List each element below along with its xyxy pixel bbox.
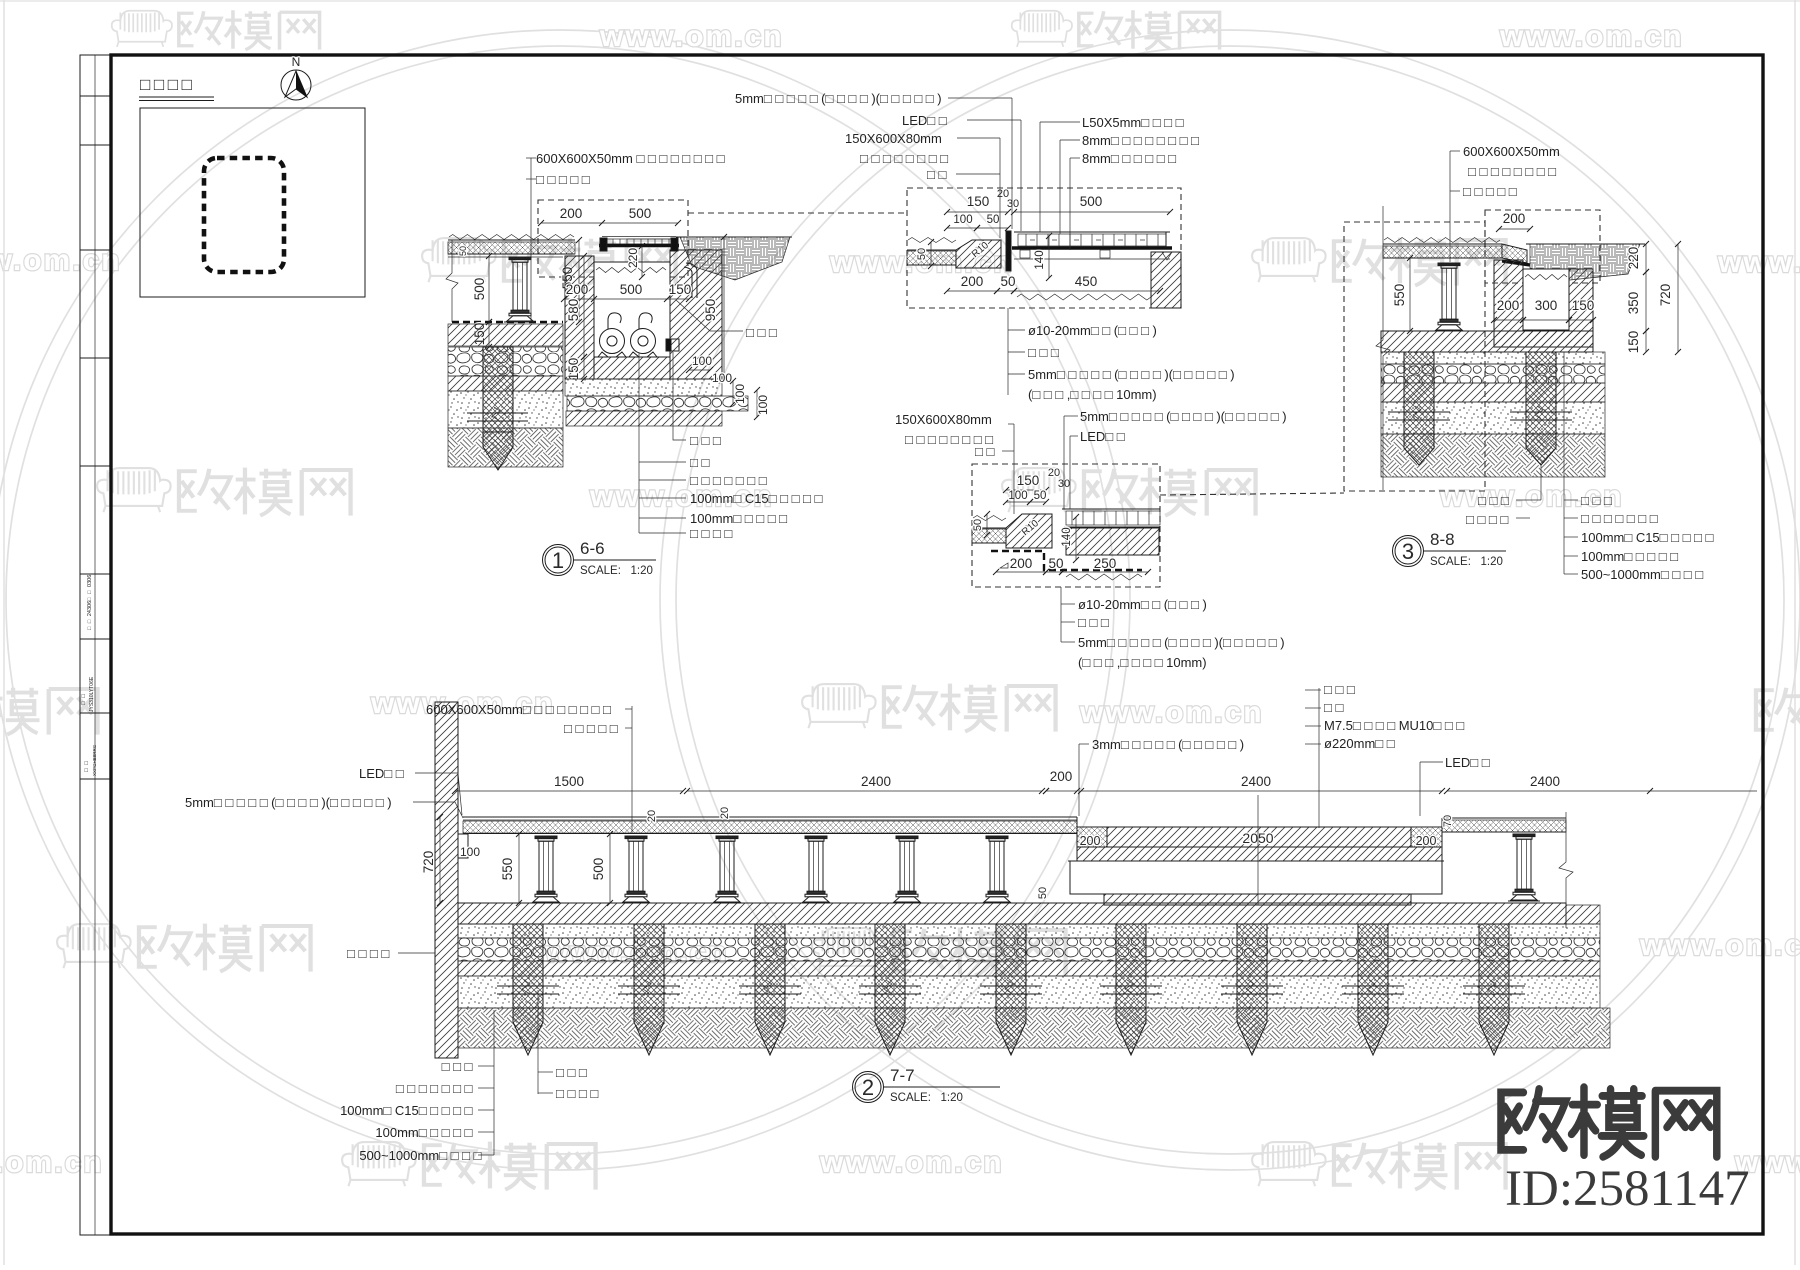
svg-text:www.om.cn: www.om.cn [819, 1146, 1004, 1179]
d1 granite cover slab [602, 239, 676, 244]
svg-text:50: 50 [987, 214, 1000, 226]
svg-text:5mm□□□□□(□□□□)(□□□□□): 5mm□□□□□(□□□□)(□□□□□) [735, 91, 942, 106]
md-top steel angle left [1006, 231, 1011, 271]
d1 pit concrete right block [670, 250, 722, 379]
watermark row D [0, 687, 98, 735]
md-top labels below [1007, 308, 1009, 395]
d2 right paving band [1442, 817, 1566, 819]
north arrow [281, 70, 311, 100]
md-low steel plate step [991, 551, 1142, 570]
dashed connector to middle detail [688, 212, 907, 214]
d1 dim 580 vertical [583, 256, 585, 357]
d2 building wall [435, 702, 458, 1058]
d2 pile 1 [513, 924, 543, 1008]
d1 section bubble [543, 545, 574, 576]
svg-text:100: 100 [1008, 490, 1027, 502]
svg-text:950: 950 [703, 299, 718, 322]
svg-text:2400: 2400 [1241, 774, 1271, 789]
dashed building outline [204, 158, 284, 272]
svg-text:www.om.cn: www.om.cn [1499, 20, 1684, 53]
svg-text:150: 150 [1017, 473, 1040, 488]
svg-text:140: 140 [1034, 250, 1046, 269]
d1 basket weave ground [680, 237, 790, 280]
md-top left paving [908, 238, 956, 243]
svg-text:□□: □□ [84, 758, 90, 772]
svg-text:50: 50 [1034, 490, 1047, 502]
svg-text:200: 200 [1497, 298, 1520, 313]
svg-text:50: 50 [972, 519, 984, 531]
svg-text:ø220mm□□: ø220mm□□ [1324, 736, 1398, 751]
svg-text:www.om.cn: www.om.cn [0, 1146, 104, 1179]
svg-text:50: 50 [458, 246, 468, 256]
d2 pedestal 4 [805, 836, 827, 839]
d2 pedestal 1 [535, 836, 557, 839]
svg-text:600X600X50mm □□□□□□□□: 600X600X50mm □□□□□□□□ [536, 151, 728, 166]
d2 pedestal 6 [986, 836, 1008, 839]
svg-text:450: 450 [1075, 274, 1098, 289]
svg-text:□□□□: □□□□ [690, 526, 736, 541]
d1 under layers [565, 379, 722, 396]
md-top dims bottom [947, 290, 997, 292]
svg-text:(□□□,□□□□10mm): (□□□,□□□□10mm) [1078, 655, 1207, 670]
md-low dashed box [972, 464, 1160, 587]
svg-text:2400: 2400 [1530, 774, 1560, 789]
svg-text:150: 150 [1626, 331, 1641, 354]
d3 dim 550 [1409, 258, 1411, 331]
svg-text:720: 720 [1658, 284, 1673, 307]
d2 pile 6 [1116, 924, 1146, 1008]
svg-text:□□□: □□□ [1324, 682, 1358, 697]
d2 pile 9 [1479, 924, 1509, 1008]
dashed connector to detail 3 [1160, 493, 1344, 495]
d2 ground layers [458, 924, 1600, 938]
md-low labels below [1060, 587, 1062, 642]
svg-text:LED□□: LED□□ [1080, 429, 1128, 444]
d3 dashed box topright [1485, 210, 1600, 283]
svg-text:150X600X80mm: 150X600X80mm [845, 131, 942, 146]
svg-text:100mm□C15□□□□□: 100mm□C15□□□□□ [1581, 530, 1717, 545]
svg-text:200: 200 [560, 206, 583, 221]
svg-text:□□: □□ [81, 691, 87, 705]
svg-text:100: 100 [692, 354, 712, 368]
d1 pump leader [638, 353, 640, 533]
svg-text:□□□: □□□ [690, 433, 724, 448]
d2 pedestal 2 [625, 836, 647, 839]
svg-text:200: 200 [1080, 834, 1101, 848]
svg-text:www.om.cn: www.om.cn [1717, 246, 1800, 279]
d3 dims mid [1494, 319, 1523, 321]
svg-text:500: 500 [591, 858, 606, 881]
svg-text:2400: 2400 [861, 774, 891, 789]
svg-text:□□□: □□□ [556, 1065, 590, 1080]
svg-text:100: 100 [756, 395, 770, 415]
svg-text:550: 550 [500, 858, 515, 881]
logo 欧模网 [1501, 1087, 1717, 1157]
svg-text:5mm□□□□□(□□□□)(□□□□□): 5mm□□□□□(□□□□)(□□□□□) [1078, 635, 1285, 650]
svg-text:3: 3 [1402, 539, 1414, 564]
svg-text:□□□□□□□□: □□□□□□□□ [860, 151, 952, 166]
d1 pit concrete under pit [594, 357, 670, 379]
md-top support feet [1020, 250, 1030, 258]
d1 water pump 1 [600, 329, 625, 354]
d1 paving slab band [448, 239, 575, 241]
d2 labels bottom-left stack [493, 1010, 495, 1155]
d1 overflow pipe [686, 263, 697, 298]
svg-text:□□□: □□□ [1478, 493, 1512, 508]
svg-text:5mm□□□□□(□□□□)(□□□□□): 5mm□□□□□(□□□□)(□□□□□) [185, 795, 392, 810]
svg-text:30: 30 [1007, 198, 1019, 210]
md-top bottom zigzag [1017, 294, 1151, 300]
svg-text:□□□: □□□ [442, 1059, 476, 1074]
md-top dims top [947, 211, 1008, 213]
svg-text:□□: □□ [1324, 700, 1347, 715]
svg-text:□□□□□: □□□□□ [536, 172, 593, 187]
svg-text:6-6: 6-6 [580, 539, 605, 558]
d1 ground wavy line [449, 235, 574, 240]
svg-text:220: 220 [1626, 247, 1641, 270]
d2 planter band3 [1104, 894, 1411, 905]
svg-text:150X600X80mm: 150X600X80mm [895, 412, 992, 427]
svg-text:www.om.cn: www.om.cn [1079, 696, 1264, 729]
svg-text:500: 500 [620, 282, 643, 297]
d1 water pump 2 [631, 329, 656, 354]
d1 support plate dashed [452, 321, 563, 323]
svg-text:50: 50 [1000, 274, 1015, 289]
svg-text:140: 140 [1061, 527, 1073, 546]
svg-text:150: 150 [669, 282, 692, 297]
svg-text:1500: 1500 [554, 774, 584, 789]
svg-text:□□□□□: □□□□□ [564, 721, 621, 736]
svg-text:100mm□C15□□□□□: 100mm□C15□□□□□ [340, 1103, 476, 1118]
svg-text:www.om.cn: www.om.cn [1639, 929, 1800, 962]
svg-text:100: 100 [712, 371, 732, 385]
svg-text:100mm□C15□□□□□: 100mm□C15□□□□□ [690, 491, 826, 506]
d3 bottom slab [1381, 331, 1593, 352]
md-top right wall hatch [1151, 252, 1181, 308]
md-low granite band right [1062, 508, 1160, 510]
d1 pit concrete left wall [565, 256, 594, 379]
svg-text:100: 100 [733, 384, 747, 404]
svg-text:□□□: □□□ [1028, 345, 1062, 360]
d3 section bubble [1393, 536, 1424, 567]
md-top dashed box [907, 188, 1181, 308]
md-top cover slab [1014, 231, 1170, 233]
d1 dim 220 vertical [641, 246, 643, 277]
d2 led channel [458, 834, 468, 858]
d1 leader [530, 158, 532, 322]
d2 pedestal right [1513, 834, 1535, 837]
d3 dim 200 top [1499, 228, 1530, 230]
d2 pile 7 [1237, 924, 1267, 1008]
d1 dim 500 vertical [488, 256, 490, 322]
md-low left paving [973, 516, 1006, 521]
d2 water pipe centerline [1257, 795, 1259, 905]
d1 dim 150 vertical [488, 322, 490, 347]
svg-text:50: 50 [1048, 556, 1063, 571]
svg-text:720: 720 [421, 851, 436, 874]
svg-text:□□: □□ [975, 444, 998, 459]
svg-text:LED□□: LED□□ [902, 113, 950, 128]
svg-text:L50X5mm□□□□: L50X5mm□□□□ [1082, 115, 1187, 130]
svg-text:□□□□: □□□□ [1466, 512, 1512, 527]
svg-text:100: 100 [953, 214, 972, 226]
d1 dim 950 vertical [723, 237, 725, 380]
d2 pile 8 [1358, 924, 1388, 1008]
detail 1 dashed boundary box [538, 200, 688, 277]
d1 timber pile [483, 347, 513, 432]
svg-text:□□□□: □□□□ [556, 1086, 602, 1101]
d2 pile 3 [755, 924, 785, 1008]
d2 base slab [458, 903, 1566, 924]
svg-text:□□: □□ [690, 455, 713, 470]
svg-text:300: 300 [1535, 298, 1558, 313]
d2 planter concrete beam [1070, 861, 1442, 894]
index plan box [140, 108, 365, 297]
svg-text:350: 350 [1626, 292, 1641, 315]
svg-text:220: 220 [626, 248, 640, 268]
d3 pedestal [1438, 263, 1460, 266]
d3 pile 2 [1526, 352, 1556, 434]
svg-text:100mm□□□□□: 100mm□□□□□ [1581, 549, 1682, 564]
d2 planter left edge [1076, 817, 1078, 827]
svg-text:500~1000mm□□□□: 500~1000mm□□□□ [1581, 567, 1707, 582]
svg-text:100: 100 [460, 845, 480, 859]
d3 ground wavy [1384, 238, 1500, 243]
svg-text:1: 1 [552, 548, 564, 573]
d3 dims right [1645, 244, 1647, 272]
svg-text:N: N [292, 55, 301, 69]
d2 pile 5 [996, 924, 1026, 1008]
d3 dashed box left [1344, 222, 1485, 491]
svg-text:8mm□□□□□□□□: 8mm□□□□□□□□ [1082, 133, 1203, 148]
svg-text:□□: □□ [927, 167, 950, 182]
svg-text:20: 20 [719, 807, 731, 819]
svg-text:XXPGHB8RRG: XXPGHB8RRG [92, 744, 97, 776]
svg-text:20: 20 [646, 810, 658, 822]
svg-text:□□□□□□□: □□□□□□□ [690, 473, 770, 488]
md-top granite wedge [956, 240, 1001, 268]
svg-text:□□□: □□□ [1078, 615, 1112, 630]
svg-text:200: 200 [1416, 834, 1437, 848]
svg-text:50: 50 [916, 248, 928, 260]
svg-text:580: 580 [566, 299, 581, 322]
svg-text:5mm□□□□□(□□□□)(□□□□□): 5mm□□□□□(□□□□)(□□□□□) [1028, 367, 1235, 382]
svg-text:SCALE: 1:20: SCALE: 1:20 [580, 565, 653, 577]
svg-text:JYS310LYT06E: JYS310LYT06E [89, 676, 95, 712]
svg-text:250: 250 [1094, 556, 1117, 571]
svg-text:□□□: □□□ [746, 325, 780, 340]
title strip [80, 55, 110, 1235]
svg-text:7-7: 7-7 [890, 1066, 915, 1085]
svg-text:550: 550 [1392, 284, 1407, 307]
d2 paving band left [463, 816, 1077, 818]
md-low granite wedge [1006, 514, 1052, 548]
svg-text:SCALE: 1:20: SCALE: 1:20 [1430, 556, 1503, 568]
svg-text:□□□□□□□: □□□□□□□ [396, 1081, 476, 1096]
d1 pit water line [596, 268, 666, 273]
svg-text:150: 150 [967, 194, 990, 209]
svg-text:□□24306□□0306: □□24306□□0306 [87, 575, 93, 630]
d2 right break [1559, 812, 1573, 928]
d2 top dim row [455, 790, 683, 792]
d1 mid dim line 200/500/150 [564, 298, 689, 300]
svg-text:200: 200 [1050, 769, 1073, 784]
svg-text:M7.5□□□□MU10□□□: M7.5□□□□MU10□□□ [1324, 718, 1468, 733]
sheet top edge [0, 0, 1800, 2]
svg-text:70: 70 [1442, 815, 1454, 827]
svg-text:200: 200 [961, 274, 984, 289]
svg-text:LED□□: LED□□ [359, 766, 407, 781]
svg-text:ø10-20mm□□(□□□): ø10-20mm□□(□□□) [1078, 597, 1207, 612]
md-low bottom zigzag [1066, 574, 1142, 580]
svg-text:□□□□: □□□□ [347, 946, 393, 961]
svg-text:100mm□□□□□: 100mm□□□□□ [690, 511, 791, 526]
svg-text:3mm□□□□□(□□□□□): 3mm□□□□□(□□□□□) [1092, 737, 1244, 752]
d3 labels bottom right [1563, 352, 1565, 574]
svg-text:500: 500 [629, 206, 652, 221]
d1 pedestal support [509, 257, 531, 260]
d1 dim 550 vertical [578, 240, 580, 322]
svg-text:□□□□□: □□□□□ [1463, 184, 1520, 199]
svg-text:ø10-20mm□□(□□□): ø10-20mm□□(□□□) [1028, 323, 1157, 338]
watermark row E [57, 924, 310, 972]
d1 pile break symbol [467, 412, 528, 414]
d1 drain box [666, 339, 679, 351]
d3 ground layers [1381, 352, 1605, 364]
svg-text:(□□□,□□□□10mm): (□□□,□□□□10mm) [1028, 387, 1157, 402]
d3 left break edge [1376, 206, 1390, 490]
d2 pile 4 [875, 924, 905, 1008]
svg-text:600X600X50mm: 600X600X50mm [1463, 144, 1560, 159]
svg-text:□□□□□□□: □□□□□□□ [1581, 511, 1661, 526]
d1 dim 150b vertical [583, 357, 585, 379]
d1 top dim line 200/500 [541, 222, 678, 224]
svg-text:2: 2 [862, 1075, 874, 1100]
svg-text:5mm□□□□□(□□□□)(□□□□□): 5mm□□□□□(□□□□)(□□□□□) [1080, 409, 1287, 424]
svg-text:150: 150 [566, 358, 581, 381]
d1 left break edge [446, 240, 458, 322]
d1 pit interior [594, 262, 670, 357]
svg-text:200: 200 [566, 282, 589, 297]
watermark row C [97, 468, 350, 516]
svg-text:ID:2581147: ID:2581147 [1505, 1161, 1750, 1217]
svg-text:500: 500 [1080, 194, 1103, 209]
svg-text:600X600X50mm□□□□□□□□: 600X600X50mm□□□□□□□□ [426, 702, 614, 717]
svg-text:LED□□: LED□□ [1445, 755, 1493, 770]
svg-text:200: 200 [1503, 211, 1526, 226]
svg-text:□□□: □□□ [1581, 493, 1615, 508]
svg-text:500~1000mm□□□□: 500~1000mm□□□□ [359, 1148, 485, 1163]
md-low hatch under band [1066, 528, 1159, 555]
svg-text:50: 50 [1037, 887, 1049, 899]
d3 retaining wall [1494, 260, 1593, 347]
d2 pedestal 3 [716, 836, 738, 839]
d2 section bubble [853, 1072, 884, 1103]
svg-text:8mm□□□□□□: 8mm□□□□□□ [1082, 151, 1180, 166]
svg-text:150: 150 [1572, 298, 1595, 313]
svg-text:□□□□□□□□: □□□□□□□□ [1468, 164, 1560, 179]
svg-text:200: 200 [1010, 556, 1033, 571]
d2 planter top slab 2050 [1077, 827, 1107, 847]
d3 pile 1 [1404, 352, 1434, 434]
d1 drain leader [673, 352, 686, 440]
d2 planter band2 [1077, 847, 1442, 861]
md-top water mark [1162, 252, 1172, 260]
d3 paving slab band [1383, 243, 1502, 245]
d1 left ground layers [448, 324, 563, 346]
svg-text:SCALE: 1:20: SCALE: 1:20 [890, 1092, 963, 1104]
svg-text:500: 500 [472, 278, 487, 301]
d2 pile 2 [634, 924, 664, 1008]
svg-text:□□□□: □□□□ [140, 75, 195, 94]
svg-text:100mm□□□□□: 100mm□□□□□ [375, 1125, 476, 1140]
svg-text:www.om.cn: www.om.cn [599, 20, 784, 53]
d3 basket weave [1530, 244, 1640, 280]
watermark arcs [0, 30, 1130, 1170]
svg-text:www.om.cn: www.om.cn [0, 244, 122, 277]
d2 labels pile [537, 990, 539, 1094]
d2 vertical dims left [439, 817, 441, 903]
watermark row A [112, 10, 320, 49]
svg-text:8-8: 8-8 [1430, 530, 1455, 549]
d2 pedestal 5 [896, 836, 918, 839]
